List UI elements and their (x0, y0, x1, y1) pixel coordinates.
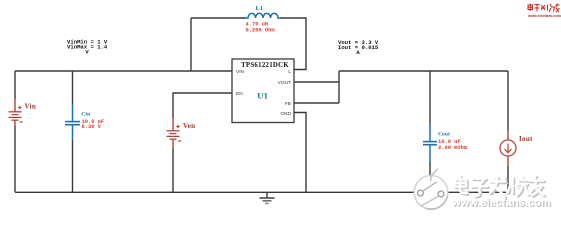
wire vertical from VIN rail up to inductor x=191 (190, 18, 192, 71)
svg-text:L1: L1 (256, 5, 264, 12)
wire top rail left segment to L1 (191, 17, 246, 19)
inductor L1 (244, 13, 282, 18)
svg-text:6.30 V: 6.30 V (82, 124, 102, 130)
svg-text:L: L (288, 69, 291, 75)
wire feedback vertical x=339 (338, 71, 340, 103)
svg-text:Cout: Cout (438, 132, 450, 138)
svg-text:Vin: Vin (25, 102, 37, 110)
svg-text:www.elecfans.com: www.elecfans.com (451, 197, 551, 209)
wire VOUT stub to feedback vertical (294, 81, 339, 83)
svg-text:VOUT: VOUT (278, 80, 291, 86)
watermark logo circle (elecfans) (414, 169, 448, 210)
op-amp / IC U1 box TPS61221DCK (232, 59, 294, 123)
svg-text:VIN: VIN (236, 69, 245, 75)
wire VIN rail (Vin node, y=71) (15, 70, 232, 72)
svg-text:U1: U1 (257, 90, 268, 100)
svg-text:0.200 Ohm: 0.200 Ohm (246, 27, 276, 33)
svg-text:Cin: Cin (82, 112, 92, 118)
wire Iout branch x=508 (507, 71, 509, 192)
svg-text:Ven: Ven (183, 122, 195, 130)
svg-text:2.00 mOhm: 2.00 mOhm (438, 145, 468, 151)
voltage source V2 Ven (battery) (167, 118, 182, 149)
wire Cout branch x=430 (429, 71, 431, 192)
current source Iout (500, 131, 516, 166)
wire Ven bottom branch (172, 148, 174, 192)
watermark top-right red mini logo 电子发烧友 (528, 4, 560, 13)
capacitor Cout (423, 125, 437, 162)
wire Cin branch x=72.5 (72, 71, 74, 192)
svg-text:Iout: Iout (519, 135, 533, 143)
wire top rail right segment from L1 down to L pin (280, 18, 306, 70)
wire GND stub from box to ground rail (294, 113, 306, 193)
svg-text:www.elecfans.com: www.elecfans.com (527, 14, 561, 18)
svg-text:GND: GND (280, 111, 291, 117)
voltage source V1 Vin (battery) (9, 99, 23, 126)
wire EN net from box to Ven (173, 93, 232, 118)
svg-text:FB: FB (285, 101, 291, 107)
wire VOUT rail y=71 (339, 70, 508, 72)
ground symbol (260, 192, 275, 203)
wire bottom ground rail y=192 (15, 191, 508, 193)
wire left vertical branch x=15 (Vin source branch) (14, 71, 16, 192)
wire FB stub (294, 102, 339, 104)
capacitor Cin (65, 104, 80, 140)
svg-text:TPS61221DCK: TPS61221DCK (241, 62, 289, 69)
svg-text:EN: EN (236, 91, 243, 97)
